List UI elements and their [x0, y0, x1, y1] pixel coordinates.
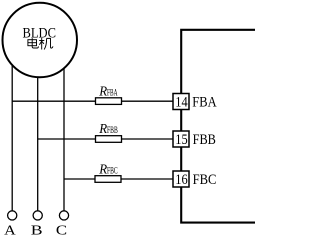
- svg-text:16: 16: [175, 172, 187, 188]
- wire C to pin 16: [64, 178, 173, 180]
- glyph 机: [39, 38, 53, 50]
- pin 16 box: [173, 171, 189, 187]
- BLDC motor M1 circle: [3, 3, 78, 78]
- svg-text:BLDC: BLDC: [23, 25, 57, 41]
- wire phase A vertical: [11, 55, 13, 211]
- terminal C: [59, 211, 68, 220]
- svg-text:15: 15: [175, 132, 187, 148]
- svg-text:14: 14: [175, 94, 187, 110]
- wire B to pin 15: [38, 138, 173, 140]
- resistor RFBA: [96, 98, 122, 105]
- wire A to pin 14: [12, 100, 173, 102]
- terminal A: [8, 211, 17, 220]
- svg-text:FBC: FBC: [193, 172, 217, 188]
- wire phase C vertical: [63, 55, 65, 211]
- pin 14 box: [173, 94, 189, 110]
- motor label 电机 (drawn as paths): [28, 38, 53, 50]
- IC U1 outline: [181, 30, 255, 223]
- svg-text:FBC: FBC: [107, 165, 118, 175]
- glyph 电: [28, 38, 39, 48]
- wire phase B vertical: [37, 60, 39, 211]
- resistor RFBB: [96, 136, 122, 143]
- svg-text:B: B: [31, 223, 43, 235]
- svg-text:FBB: FBB: [193, 132, 216, 148]
- svg-text:FBA: FBA: [107, 88, 118, 98]
- svg-text:A: A: [4, 223, 16, 235]
- svg-text:FBB: FBB: [107, 125, 118, 135]
- resistor RFBC: [95, 176, 121, 183]
- svg-text:C: C: [56, 223, 67, 235]
- pin 15 box: [173, 131, 189, 147]
- svg-text:FBA: FBA: [192, 95, 216, 111]
- terminal B: [33, 211, 42, 220]
